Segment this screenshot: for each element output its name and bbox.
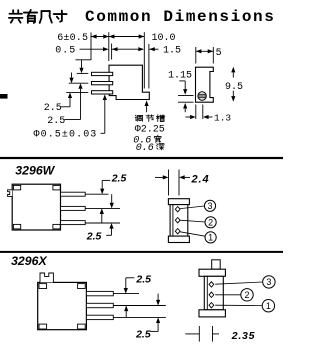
svg-text:3: 3 <box>266 277 271 287</box>
svg-text:Common Dimensions: Common Dimensions <box>85 8 275 26</box>
svg-text:5: 5 <box>216 48 222 59</box>
svg-text:3296X: 3296X <box>11 254 47 268</box>
svg-text:2.5: 2.5 <box>135 328 151 340</box>
svg-text:2.5: 2.5 <box>47 116 65 127</box>
svg-text:1.5: 1.5 <box>163 46 181 57</box>
svg-text:1.3: 1.3 <box>214 112 231 123</box>
svg-text:3296W: 3296W <box>15 164 55 178</box>
svg-text:2.5: 2.5 <box>44 103 62 114</box>
svg-text:2.35: 2.35 <box>231 330 256 342</box>
svg-text:2: 2 <box>208 218 213 228</box>
svg-text:2.4: 2.4 <box>191 173 210 185</box>
svg-text:Φ2.25: Φ2.25 <box>135 124 165 135</box>
svg-text:1: 1 <box>208 233 213 243</box>
svg-text:2.5: 2.5 <box>135 273 151 285</box>
svg-text:0.5: 0.5 <box>55 46 76 57</box>
svg-text:0.6: 0.6 <box>136 143 154 154</box>
svg-text:Φ0.5±0.03: Φ0.5±0.03 <box>34 130 98 141</box>
svg-text:1: 1 <box>266 301 271 311</box>
svg-text:10.0: 10.0 <box>152 33 176 44</box>
svg-text:6±0.5: 6±0.5 <box>57 33 88 44</box>
svg-text:2.5: 2.5 <box>111 173 127 185</box>
svg-text:9.5: 9.5 <box>225 82 243 93</box>
svg-text:1.15: 1.15 <box>168 70 192 81</box>
svg-text:2: 2 <box>244 290 249 300</box>
svg-text:3: 3 <box>207 201 212 211</box>
svg-text:2.5: 2.5 <box>86 231 102 243</box>
